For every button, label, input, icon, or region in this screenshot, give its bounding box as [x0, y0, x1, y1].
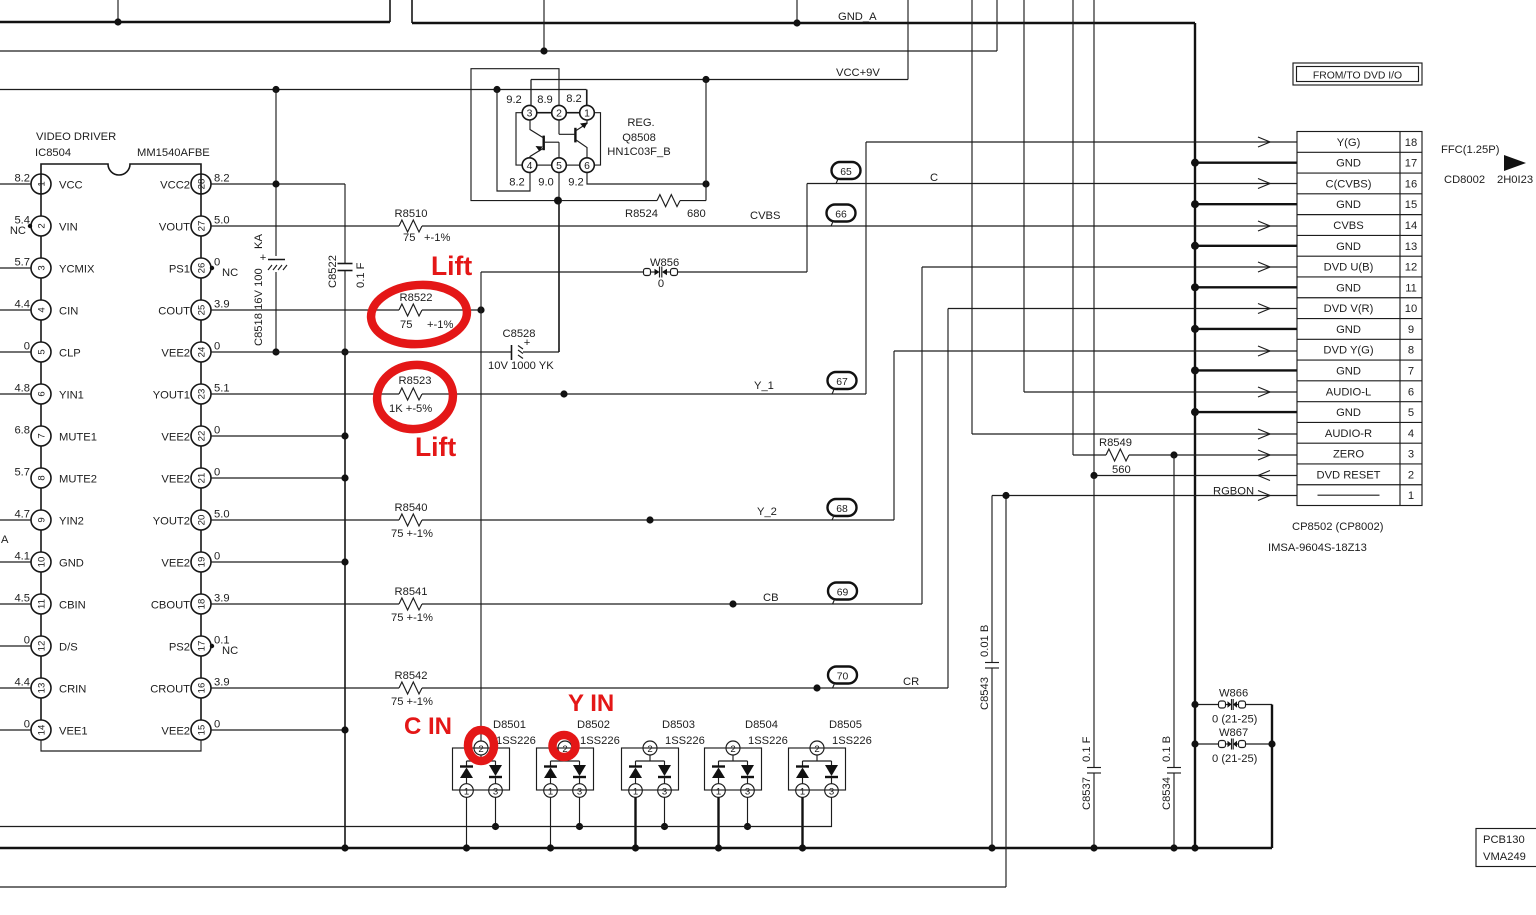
- junction VEE2 line at C8522 / VEE2 bus start: [341, 348, 348, 355]
- svg-text:COUT: COUT: [158, 306, 190, 318]
- resistor R8542 75 (CROUT->CR): [211, 670, 433, 708]
- svg-text:R8522: R8522: [400, 292, 433, 304]
- svg-text:NC: NC: [10, 225, 26, 237]
- svg-text:75 +-1%: 75 +-1%: [391, 612, 433, 624]
- wire CR net: [422, 309, 1270, 689]
- resistor R8523 1K (YOUT1->Y_1): [211, 375, 432, 415]
- IC pin 15 VEE2: [161, 719, 220, 741]
- svg-text:VCC+9V: VCC+9V: [836, 67, 880, 79]
- wire CB net: [422, 267, 1270, 604]
- junction Y_2 to D8503: [646, 516, 653, 523]
- wire Y_2 net: [422, 351, 1270, 520]
- wire bottom line y=887: [0, 496, 1006, 888]
- svg-text:VEE2: VEE2: [161, 348, 190, 360]
- svg-text:8.9: 8.9: [537, 94, 553, 106]
- junction VCC+9V at Q8508 right leg: [702, 76, 709, 83]
- IC pin 1 VCC: [0, 173, 83, 217]
- svg-text:Y_1: Y_1: [754, 380, 774, 392]
- svg-text:5.7: 5.7: [14, 467, 30, 479]
- svg-text:7: 7: [37, 433, 48, 438]
- jumper W866 0 (21-25): [1195, 688, 1272, 726]
- svg-text:+: +: [260, 252, 267, 264]
- svg-text:1: 1: [464, 787, 469, 798]
- wire DVD RESET feed: [1093, 0, 1095, 476]
- wire ZERO feed via R8549: [1072, 0, 1074, 455]
- IC pin 6 YIN1: [0, 383, 84, 427]
- svg-text:MUTE2: MUTE2: [59, 474, 97, 486]
- svg-text:VEE2: VEE2: [161, 474, 190, 486]
- svg-text:+-1%: +-1%: [424, 232, 450, 244]
- wire D8501 pin2 riser: [480, 310, 482, 741]
- svg-text:8.2: 8.2: [214, 173, 230, 185]
- svg-text:3: 3: [493, 787, 498, 798]
- junction RGBON to bottom line: [1002, 492, 1009, 499]
- svg-text:REG.: REG.: [627, 117, 654, 129]
- node FROM/TO DVD I/O box: [1293, 63, 1422, 85]
- svg-text:D8505: D8505: [829, 719, 862, 731]
- IC pin 19 VEE2: [161, 551, 220, 595]
- svg-text:VEE1: VEE1: [59, 726, 88, 738]
- svg-text:C8522: C8522: [327, 255, 339, 288]
- node connector tag 66: [827, 205, 856, 227]
- annotation circle around R8523: [373, 361, 456, 434]
- svg-text:RGBON: RGBON: [1213, 486, 1254, 498]
- svg-text:0 (21-25): 0 (21-25): [1212, 714, 1258, 726]
- wire IC bottom VEE1-VEE2 link: [41, 740, 201, 751]
- svg-text:D8501: D8501: [493, 719, 526, 731]
- svg-text:9.0: 9.0: [538, 177, 554, 189]
- svg-text:YIN1: YIN1: [59, 390, 84, 402]
- svg-text:GND: GND: [1336, 407, 1361, 419]
- junction top-left block: [114, 18, 121, 25]
- svg-text:75 +-1%: 75 +-1%: [391, 528, 433, 540]
- svg-text:VIN: VIN: [59, 222, 78, 234]
- svg-text:0: 0: [214, 341, 220, 353]
- IC pin 3 YCMIX: [0, 257, 95, 301]
- node connector tag 69: [828, 583, 857, 605]
- annotation circle around R8522: [369, 282, 469, 348]
- svg-text:FROM/TO DVD I/O: FROM/TO DVD I/O: [1313, 71, 1402, 82]
- svg-text:C8534: C8534: [1161, 777, 1173, 810]
- wire VEE2 pin24 net to C8528: [211, 351, 511, 353]
- svg-text:11: 11: [37, 599, 48, 609]
- svg-text:DVD RESET: DVD RESET: [1316, 469, 1380, 481]
- svg-text:W866: W866: [1219, 688, 1248, 700]
- svg-text:2: 2: [730, 744, 735, 755]
- svg-text:4: 4: [1408, 428, 1414, 440]
- svg-text:C8528: C8528: [503, 328, 536, 340]
- wire 8.2V rail y=89 (VCC2): [0, 90, 587, 106]
- wire VEE2 pin15: [211, 729, 345, 731]
- svg-text:4.8: 4.8: [14, 383, 30, 395]
- svg-text:GND: GND: [59, 558, 84, 570]
- svg-text:6: 6: [1408, 386, 1414, 398]
- IC pin 12 D/S: [0, 635, 78, 679]
- svg-text:VCC: VCC: [59, 180, 83, 192]
- svg-text:8.2: 8.2: [566, 93, 582, 105]
- svg-text:2: 2: [37, 223, 48, 228]
- svg-text:CVBS: CVBS: [1333, 220, 1363, 232]
- svg-text:W856: W856: [650, 257, 679, 269]
- svg-text:CR: CR: [903, 676, 919, 688]
- svg-text:1SS226: 1SS226: [748, 735, 788, 747]
- svg-text:3: 3: [662, 787, 667, 798]
- svg-text:17: 17: [1405, 158, 1417, 170]
- svg-text:66: 66: [835, 210, 847, 221]
- wire signal arrows into connector: [1258, 137, 1297, 501]
- svg-text:VEE2: VEE2: [161, 432, 190, 444]
- svg-text:R8549: R8549: [1099, 437, 1132, 449]
- IC pin 17 PS2: [169, 635, 238, 679]
- resistor R8541 75 (CBOUT->CB): [211, 586, 433, 624]
- svg-text:28: 28: [197, 179, 208, 190]
- node FFC(1.25P) label with arrow: [1441, 144, 1526, 171]
- wire Y_1 net: [422, 142, 1270, 394]
- wire bottom ground bus (thick): [0, 847, 1272, 849]
- svg-text:DVD Y(G): DVD Y(G): [1323, 345, 1373, 357]
- junction GND bus dots: [1191, 159, 1199, 416]
- svg-text:15: 15: [1405, 199, 1417, 211]
- junction D8504 pin3: [744, 823, 751, 830]
- svg-text:4.4: 4.4: [14, 677, 30, 689]
- IC pin 7 MUTE1: [14, 425, 96, 469]
- svg-text:YOUT2: YOUT2: [153, 516, 190, 528]
- wire GND_A net: [412, 0, 1195, 848]
- svg-text:1: 1: [584, 109, 590, 120]
- svg-text:AUDIO-L: AUDIO-L: [1326, 386, 1371, 398]
- svg-text:18: 18: [197, 599, 208, 610]
- svg-text:0: 0: [214, 719, 220, 731]
- svg-text:16: 16: [197, 683, 208, 694]
- svg-text:CLP: CLP: [59, 348, 81, 360]
- resistor R8549 560: [1073, 437, 1270, 476]
- IC pin 14 VEE1: [0, 719, 88, 741]
- svg-text:7: 7: [1408, 365, 1414, 377]
- svg-text:75 +-1%: 75 +-1%: [391, 696, 433, 708]
- svg-text:9.2: 9.2: [568, 177, 584, 189]
- svg-text:5.0: 5.0: [214, 509, 230, 521]
- svg-text:CROUT: CROUT: [150, 684, 190, 696]
- svg-text:D8504: D8504: [745, 719, 778, 731]
- svg-text:680: 680: [687, 208, 706, 220]
- svg-text:0 (21-25): 0 (21-25): [1212, 753, 1258, 765]
- svg-text:16: 16: [1405, 178, 1417, 190]
- svg-text:YCMIX: YCMIX: [59, 264, 95, 276]
- capacitor C8534 0.1 B: [1161, 455, 1181, 848]
- junction D8505 pin1 at ground bus: [799, 844, 806, 851]
- svg-text:14: 14: [1405, 220, 1417, 232]
- svg-text:0: 0: [24, 341, 30, 353]
- junction D8502 pin3: [576, 823, 583, 830]
- svg-text:27: 27: [197, 221, 208, 232]
- node connector tag 70: [828, 667, 857, 689]
- svg-text:25: 25: [197, 305, 208, 316]
- svg-text:W867: W867: [1219, 727, 1248, 739]
- svg-text:GND_A: GND_A: [838, 11, 877, 23]
- svg-text:MUTE1: MUTE1: [59, 432, 97, 444]
- svg-text:4: 4: [527, 161, 533, 172]
- svg-text:CRIN: CRIN: [59, 684, 86, 696]
- svg-text:CBIN: CBIN: [59, 600, 86, 612]
- wire upper horizontal net y=51: [0, 0, 997, 51]
- svg-text:5.7: 5.7: [14, 257, 30, 269]
- svg-text:R8510: R8510: [395, 208, 428, 220]
- capacitor C8522 0.1F: [327, 184, 367, 352]
- svg-text:CIN: CIN: [59, 306, 78, 318]
- wire C net riser and line to connector: [481, 184, 1270, 311]
- junction 8.2V rail at Q8508 pin4 leg: [493, 86, 500, 93]
- node connector tag 68: [828, 499, 857, 520]
- junction 8.2V rail at C8518: [272, 86, 279, 93]
- wire DVD RESET out-arrow: [1258, 471, 1270, 481]
- IC pin 5 CLP: [0, 341, 81, 385]
- svg-text:YOUT1: YOUT1: [153, 390, 190, 402]
- junction W867 left: [1191, 740, 1198, 747]
- svg-text:4.4: 4.4: [14, 299, 30, 311]
- svg-text:MM1540AFBE: MM1540AFBE: [137, 147, 210, 159]
- junction ground bus at VEE2 bus: [341, 844, 348, 851]
- svg-text:2: 2: [1408, 469, 1414, 481]
- IC pin 26 PS1: [169, 257, 238, 301]
- wire VEE2 vertical bus to ground: [344, 352, 346, 848]
- svg-text:0: 0: [214, 467, 220, 479]
- svg-text:R8523: R8523: [399, 375, 432, 387]
- svg-text:1SS226: 1SS226: [496, 735, 536, 747]
- svg-text:22: 22: [197, 431, 208, 442]
- junction CR to D8505: [813, 684, 820, 691]
- wire VEE2 pin22: [211, 435, 345, 437]
- wire AUDIO-L feed: [1024, 0, 1270, 392]
- junction Y_1 to D8502: [560, 390, 567, 397]
- resistor R8510 75 (VOUT->CVBS): [211, 208, 450, 244]
- wire CVBS net: [422, 225, 1270, 227]
- svg-text:0.1 B: 0.1 B: [1161, 736, 1173, 762]
- svg-text:GND: GND: [1336, 324, 1361, 336]
- svg-text:KA: KA: [253, 234, 265, 249]
- svg-text:18: 18: [1405, 137, 1417, 149]
- svg-text:NC: NC: [222, 645, 238, 657]
- svg-text:C: C: [930, 172, 938, 184]
- svg-text:4.7: 4.7: [14, 509, 30, 521]
- IC pin 18 CBOUT: [151, 593, 230, 637]
- svg-text:GND: GND: [1336, 282, 1361, 294]
- junction W867 right: [1268, 740, 1275, 747]
- svg-text:4.1: 4.1: [14, 551, 30, 563]
- svg-text:13: 13: [1405, 241, 1417, 253]
- wire Q8508 right leg vertical: [705, 80, 707, 201]
- junction D8501 pin1 at ground bus: [463, 844, 470, 851]
- junction D8501 pin3: [492, 823, 499, 830]
- svg-text:CB: CB: [763, 592, 779, 604]
- svg-text:+-1%: +-1%: [427, 319, 453, 331]
- junction Q8508 pin6/VCC leg: [702, 180, 709, 187]
- IC pin 4 CIN: [0, 299, 78, 343]
- svg-text:D/S: D/S: [59, 642, 78, 654]
- diode D8503 1SS226: [622, 719, 705, 848]
- svg-text:8.2: 8.2: [509, 177, 525, 189]
- svg-text:6.8: 6.8: [14, 425, 30, 437]
- svg-text:1: 1: [1408, 490, 1414, 502]
- svg-text:CD8002: CD8002: [1444, 174, 1485, 186]
- diode D8504 1SS226: [705, 719, 788, 848]
- svg-text:3.9: 3.9: [214, 677, 230, 689]
- svg-text:15: 15: [197, 725, 208, 736]
- svg-text:8: 8: [1408, 345, 1414, 357]
- svg-text:GND: GND: [1336, 241, 1361, 253]
- svg-text:70: 70: [837, 672, 849, 683]
- svg-text:69: 69: [837, 588, 849, 599]
- svg-text:1SS226: 1SS226: [665, 735, 705, 747]
- svg-text:0.01 B: 0.01 B: [979, 625, 991, 657]
- jumper W856 0: [481, 257, 807, 290]
- svg-text:26: 26: [197, 263, 208, 274]
- svg-text:12: 12: [37, 641, 48, 652]
- svg-text:VIDEO DRIVER: VIDEO DRIVER: [36, 131, 116, 143]
- svg-text:PCB130: PCB130: [1483, 834, 1525, 846]
- op-amp U1 video driver IC8504 MM1540AFBE body: [35, 131, 210, 194]
- junction GND_A vertical feed: [793, 19, 800, 26]
- transistor Q2 regulator Q8508 HN1C03F_B: [471, 69, 706, 201]
- svg-text:VCC2: VCC2: [160, 180, 190, 192]
- svg-text:13: 13: [37, 683, 48, 694]
- wire W866/W867 right vertical to ground bus: [1271, 705, 1273, 849]
- junction D8503 pin3: [661, 823, 668, 830]
- svg-text:2: 2: [814, 744, 819, 755]
- svg-text:1: 1: [633, 787, 638, 798]
- svg-text:C8543: C8543: [979, 677, 991, 710]
- svg-text:HN1C03F_B: HN1C03F_B: [607, 146, 670, 158]
- svg-text:3: 3: [1408, 449, 1414, 461]
- svg-text:Y_2: Y_2: [757, 506, 777, 518]
- svg-text:R8540: R8540: [395, 502, 428, 514]
- svg-text:0.1 F: 0.1 F: [355, 262, 367, 288]
- svg-text:2: 2: [647, 744, 652, 755]
- wire RGBON line: [992, 495, 1270, 497]
- svg-text:3: 3: [829, 787, 834, 798]
- svg-text:3: 3: [37, 265, 48, 270]
- IC pin 28 VCC2: [160, 173, 229, 217]
- svg-text:75: 75: [400, 319, 412, 331]
- svg-text:9: 9: [37, 517, 48, 522]
- svg-text:VEE2: VEE2: [161, 558, 190, 570]
- svg-text:2: 2: [478, 744, 483, 755]
- junction D8504 pin1 at ground bus: [715, 844, 722, 851]
- IC pin 27 VOUT: [159, 215, 230, 259]
- capacitor C8543 0.01 B: [979, 496, 999, 849]
- svg-text:NC: NC: [222, 267, 238, 279]
- svg-text:Y(G): Y(G): [1337, 137, 1361, 149]
- svg-text:A: A: [1, 534, 9, 546]
- svg-text:3.9: 3.9: [214, 299, 230, 311]
- IC pin 13 CRIN: [0, 677, 86, 721]
- svg-text:1SS226: 1SS226: [832, 735, 872, 747]
- resistor R8524 680: [562, 195, 706, 220]
- svg-text:0: 0: [214, 257, 220, 269]
- svg-text:IC8504: IC8504: [35, 147, 71, 159]
- svg-text:65: 65: [840, 167, 852, 178]
- svg-text:5: 5: [37, 349, 48, 354]
- svg-text:1SS226: 1SS226: [580, 735, 620, 747]
- svg-text:VMA249: VMA249: [1483, 851, 1526, 863]
- svg-text:2H0I23: 2H0I23: [1497, 174, 1533, 186]
- svg-text:C IN: C IN: [404, 713, 452, 740]
- svg-text:Lift: Lift: [415, 432, 456, 462]
- svg-text:1: 1: [548, 787, 553, 798]
- svg-text:8: 8: [37, 475, 48, 480]
- svg-text:3: 3: [527, 109, 533, 120]
- svg-text:67: 67: [836, 377, 848, 388]
- svg-text:5: 5: [1408, 407, 1414, 419]
- junction CB to D8504: [729, 600, 736, 607]
- svg-text:C8518 16V 100: C8518 16V 100: [253, 268, 265, 346]
- junction ZERO line to C8534: [1170, 451, 1177, 458]
- svg-text:AUDIO-R: AUDIO-R: [1325, 428, 1372, 440]
- capacitor C8537 0.1 F: [1081, 476, 1101, 849]
- svg-text:21: 21: [197, 473, 208, 484]
- wire VEE2 pin19: [211, 561, 345, 563]
- IC pin 9 YIN2: [0, 509, 84, 553]
- junction D8503 pin1 at ground bus: [632, 844, 639, 851]
- resistor R8522 75 (COUT->C): [211, 292, 481, 331]
- svg-text:10: 10: [37, 557, 48, 568]
- svg-text:PS2: PS2: [169, 642, 190, 654]
- svg-text:5.1: 5.1: [214, 383, 230, 395]
- svg-text:DVD V(R): DVD V(R): [1324, 303, 1374, 315]
- svg-text:C(CVBS): C(CVBS): [1326, 178, 1372, 190]
- svg-text:0: 0: [214, 551, 220, 563]
- junction W866 left: [1191, 701, 1198, 708]
- junction D8502 pin1 at ground bus: [547, 844, 554, 851]
- IC pin 11 CBIN: [0, 593, 86, 637]
- svg-text:12: 12: [1405, 262, 1417, 274]
- wire top-left block outline (cut off): [0, 0, 390, 22]
- wire VEE2 pin21: [211, 477, 345, 479]
- capacitor C8518 100u 16V electrolytic: [253, 90, 287, 353]
- IC pin 24 VEE2: [161, 341, 220, 385]
- wire VCC2 pin28 net: [211, 183, 345, 185]
- svg-text:C8537: C8537: [1081, 777, 1093, 810]
- capacitor C8528 1000u 10V: [488, 328, 559, 372]
- svg-text:R8524: R8524: [625, 208, 658, 220]
- svg-text:6: 6: [37, 391, 48, 396]
- junction Q8508 emitter node to R8524: [554, 197, 562, 205]
- svg-text:0: 0: [658, 278, 664, 290]
- svg-text:1: 1: [37, 181, 48, 186]
- svg-text:R8542: R8542: [395, 670, 428, 682]
- svg-text:0: 0: [24, 719, 30, 731]
- svg-text:4.5: 4.5: [14, 593, 30, 605]
- wire DVD RESET line: [1094, 475, 1297, 477]
- svg-text:24: 24: [197, 346, 208, 357]
- svg-text:1: 1: [716, 787, 721, 798]
- svg-text:0: 0: [214, 425, 220, 437]
- svg-text:19: 19: [197, 557, 208, 568]
- svg-text:ZERO: ZERO: [1333, 449, 1364, 461]
- svg-text:1K +-5%: 1K +-5%: [389, 403, 432, 415]
- svg-text:D8503: D8503: [662, 719, 695, 731]
- annotation circle D8502 pin2: [553, 735, 576, 757]
- svg-text:Lift: Lift: [431, 251, 472, 281]
- svg-text:VOUT: VOUT: [159, 222, 190, 234]
- svg-text:75: 75: [403, 232, 415, 244]
- svg-text:23: 23: [197, 389, 208, 400]
- svg-text:3: 3: [577, 787, 582, 798]
- connector CP8502 (CP8002) IMSA-9604S-18Z13: [1268, 132, 1422, 555]
- svg-text:CP8502 (CP8002): CP8502 (CP8002): [1292, 521, 1384, 533]
- svg-text:1: 1: [800, 787, 805, 798]
- IC pin 8 MUTE2: [14, 467, 96, 511]
- svg-text:17: 17: [197, 641, 208, 652]
